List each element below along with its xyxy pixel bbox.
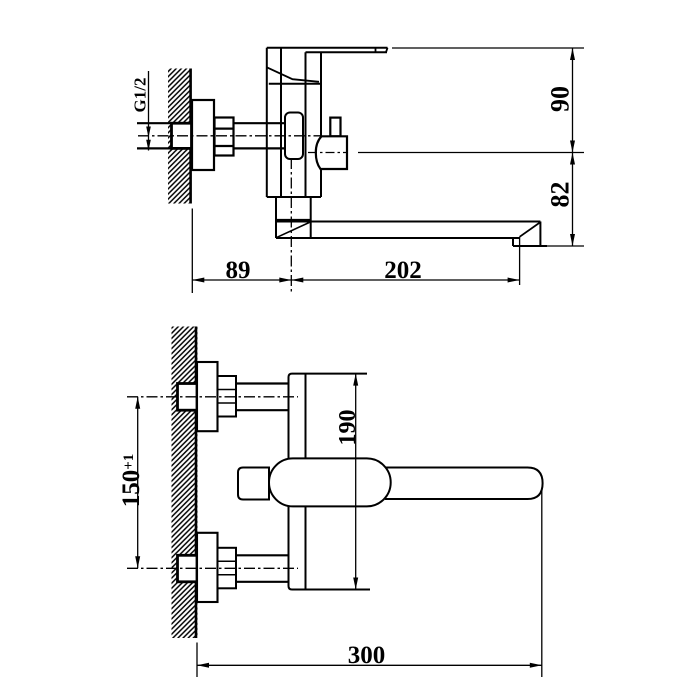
svg-text:190: 190: [335, 410, 361, 446]
svg-text:300: 300: [348, 642, 386, 669]
svg-text:89: 89: [226, 257, 251, 284]
svg-text:90: 90: [546, 86, 575, 112]
svg-text:82: 82: [546, 182, 575, 208]
svg-text:G1/2: G1/2: [131, 78, 150, 113]
svg-text:202: 202: [384, 257, 422, 284]
